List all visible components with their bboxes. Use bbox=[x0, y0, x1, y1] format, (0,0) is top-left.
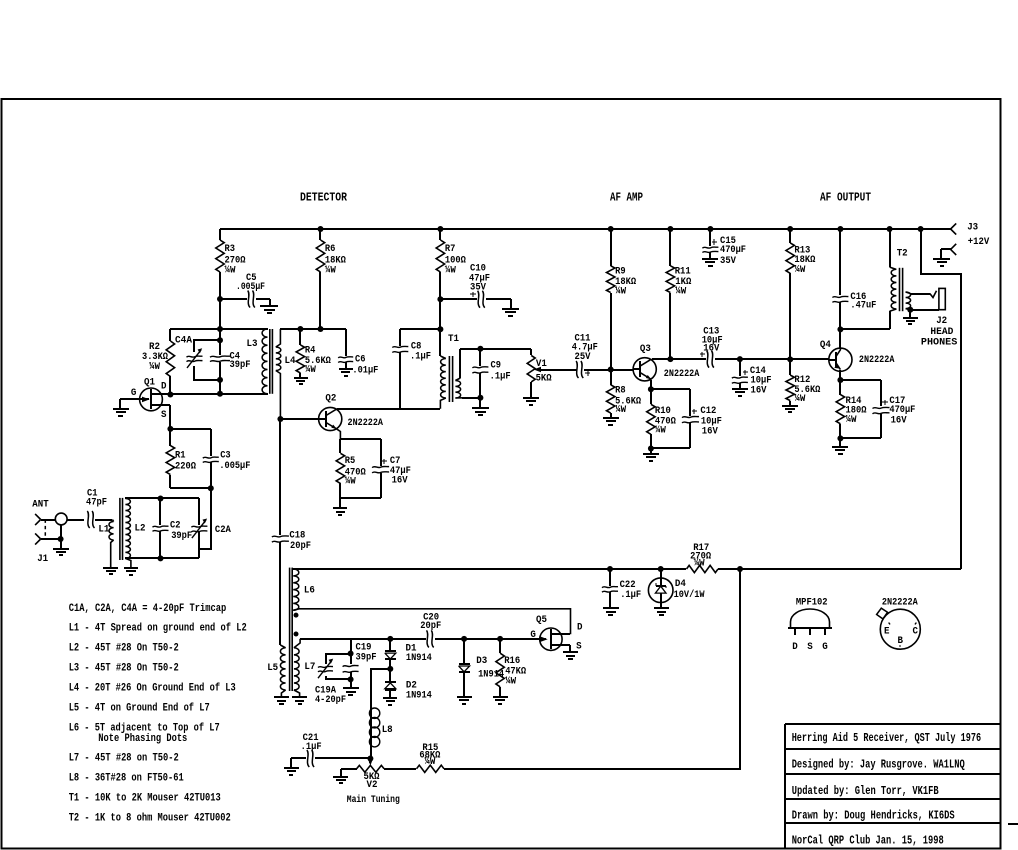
capacitor C2 bbox=[159, 498, 161, 525]
inductor L8 bbox=[370, 708, 372, 758]
trimmer C19A bbox=[318, 666, 333, 667]
core L5/L6/L7 bbox=[289, 568, 291, 691]
svg-text:L1: L1 bbox=[98, 524, 109, 535]
node T2 sec gnd bbox=[907, 307, 913, 313]
node R14 bottom bbox=[837, 435, 843, 441]
ground Q1 gate bbox=[113, 408, 129, 410]
svg-text:2N2222A: 2N2222A bbox=[882, 597, 918, 608]
svg-text:16V: 16V bbox=[751, 385, 767, 396]
svg-text:Q5: Q5 bbox=[536, 615, 547, 626]
svg-text:Q4: Q4 bbox=[820, 340, 831, 351]
svg-text:470µF: 470µF bbox=[720, 245, 746, 256]
svg-text:35V: 35V bbox=[470, 283, 486, 294]
core T2 bbox=[899, 268, 901, 311]
capacitor C1 bbox=[87, 511, 89, 528]
svg-text:Main Tuning: Main Tuning bbox=[347, 794, 400, 806]
node C4A-top bbox=[217, 337, 223, 343]
svg-text:D4: D4 bbox=[675, 579, 686, 590]
svg-text:L5 - 4T on Ground End of L7: L5 - 4T on Ground End of L7 bbox=[69, 703, 210, 715]
node D4 bbox=[658, 566, 664, 572]
ground L5 bbox=[274, 696, 289, 698]
svg-text:220Ω: 220Ω bbox=[175, 462, 196, 473]
svg-text:35V: 35V bbox=[720, 256, 736, 267]
ground L2 bbox=[124, 567, 138, 569]
svg-text:¼W: ¼W bbox=[345, 476, 356, 488]
resistor R14 / C17 box bbox=[840, 379, 881, 381]
Q1 gate wire bbox=[120, 398, 149, 400]
svg-text:10V/1W: 10V/1W bbox=[674, 589, 705, 601]
node C9 bottom bbox=[477, 395, 483, 401]
svg-text:.1µF: .1µF bbox=[301, 742, 322, 753]
ground C9 bbox=[472, 407, 489, 409]
capacitor C16 bbox=[839, 229, 841, 295]
ground C21 bbox=[284, 767, 299, 769]
wire oscillator gate bbox=[300, 638, 426, 640]
svg-text:D3: D3 bbox=[476, 656, 487, 667]
transistor Q3 bbox=[633, 358, 656, 381]
svg-text:T2 - 1K to 8 ohm Mouser 42TU00: T2 - 1K to 8 ohm Mouser 42TU002 bbox=[69, 813, 231, 825]
wire regulated rail bbox=[293, 568, 686, 570]
svg-text:2N2222A: 2N2222A bbox=[859, 355, 895, 366]
svg-text:C9: C9 bbox=[491, 361, 502, 372]
svg-text:16V: 16V bbox=[392, 476, 408, 487]
svg-text:T1: T1 bbox=[448, 334, 459, 345]
wire L2 bottom gnd bbox=[125, 558, 130, 568]
svg-text:C1A, C2A, C4A = 4-20pF Trimcap: C1A, C2A, C4A = 4-20pF Trimcap bbox=[69, 603, 227, 615]
svg-text:S: S bbox=[807, 642, 813, 653]
svg-text:.47uF: .47uF bbox=[850, 300, 876, 311]
svg-text:¼W: ¼W bbox=[615, 286, 626, 298]
ground C22 bbox=[603, 607, 619, 609]
wire R15 feed bbox=[444, 569, 740, 769]
wire C8 top bbox=[400, 328, 440, 330]
svg-text:C4A: C4A bbox=[175, 336, 192, 347]
ground R16 bbox=[493, 696, 508, 698]
ground L1 bbox=[103, 567, 118, 569]
ground C6 bbox=[339, 368, 353, 370]
resistor R5 bbox=[339, 439, 341, 453]
svg-text:47pF: 47pF bbox=[86, 498, 107, 509]
inductor L6 bbox=[293, 569, 299, 610]
node rail-R7 bbox=[437, 226, 443, 232]
svg-text:G: G bbox=[530, 630, 536, 641]
node R8 top bbox=[608, 367, 614, 373]
svg-text:¼W: ¼W bbox=[149, 361, 160, 373]
node C4A-bot bbox=[217, 377, 223, 383]
inductor L2 bbox=[125, 499, 130, 559]
node R1 top bbox=[167, 426, 173, 432]
transformer T2 secondary bbox=[905, 291, 907, 293]
resistor R10 / C12 box bbox=[651, 388, 690, 390]
potentiometer V2 bbox=[369, 758, 371, 763]
ground D3 bbox=[457, 696, 472, 698]
svg-text:L3 - 45T #28 On T50-2: L3 - 45T #28 On T50-2 bbox=[69, 663, 179, 675]
node rail-C15 bbox=[707, 226, 713, 232]
node R7-C10 bbox=[437, 296, 443, 302]
svg-text:R4: R4 bbox=[305, 346, 316, 357]
svg-text:.1µF: .1µF bbox=[620, 590, 641, 601]
svg-text:D: D bbox=[577, 623, 583, 634]
svg-text:L1 - 4T Spread on ground end o: L1 - 4T Spread on ground end of L2 bbox=[69, 623, 247, 635]
svg-text:L8 - 36T#28 on FT50-61: L8 - 36T#28 on FT50-61 bbox=[69, 773, 184, 785]
resistor R17 bbox=[687, 565, 719, 572]
svg-text:C18: C18 bbox=[289, 531, 305, 542]
svg-text:.01µF: .01µF bbox=[352, 365, 378, 376]
resistor R16 bbox=[499, 639, 501, 653]
potentiometer V1 bbox=[530, 349, 532, 355]
node R10 bottom bbox=[648, 446, 654, 452]
svg-text:20pF: 20pF bbox=[420, 621, 441, 632]
ground C14 bbox=[732, 388, 748, 390]
svg-text:39pF: 39pF bbox=[230, 360, 251, 371]
inductor L7 bbox=[294, 639, 300, 648]
svg-text:5KΩ: 5KΩ bbox=[536, 373, 552, 384]
capacitor C7 bbox=[372, 466, 389, 467]
capacitor C22 bbox=[609, 569, 611, 586]
capacitor C3 bbox=[210, 429, 212, 456]
connector J1 top bbox=[35, 514, 41, 520]
wire Q2 collector to T1 bbox=[337, 408, 440, 410]
V1 wiper bbox=[538, 369, 577, 371]
svg-text:¼W: ¼W bbox=[424, 756, 435, 768]
svg-text:R6: R6 bbox=[325, 244, 336, 255]
trimmer C2A branch bbox=[198, 498, 200, 525]
capacitor C21 bbox=[291, 757, 306, 759]
wire T2 sec bottom bbox=[906, 309, 911, 310]
svg-text:Note Phasing Dots: Note Phasing Dots bbox=[98, 733, 187, 745]
svg-text:V2: V2 bbox=[367, 780, 378, 791]
ground R5/C7 bbox=[333, 507, 347, 509]
wire T1 sec top bbox=[460, 348, 531, 350]
resistor R14 bbox=[839, 380, 841, 395]
resistor R6 bbox=[319, 229, 321, 240]
trimmer C2A bbox=[191, 526, 207, 527]
svg-text:T2: T2 bbox=[897, 249, 908, 260]
svg-text:1N914: 1N914 bbox=[406, 653, 432, 664]
wire L3 top bbox=[170, 328, 268, 330]
diode D3 bbox=[463, 639, 465, 664]
svg-text:L7: L7 bbox=[304, 662, 315, 673]
node rail-R6 bbox=[318, 226, 324, 232]
node C14 top bbox=[737, 356, 743, 362]
ground J1 bbox=[53, 548, 69, 550]
jack J2 body bbox=[939, 288, 945, 309]
svg-text:¼W: ¼W bbox=[325, 265, 336, 277]
svg-text:2N2222A: 2N2222A bbox=[664, 369, 700, 380]
ground V1 bbox=[523, 397, 539, 399]
svg-text:D: D bbox=[792, 642, 798, 653]
svg-text:Designed by: Jay Rusgrove. WA1: Designed by: Jay Rusgrove. WA1LNQ bbox=[792, 757, 965, 771]
tick mark outside border bbox=[1008, 823, 1018, 825]
node R3-C5 bbox=[217, 296, 223, 302]
svg-text:¼W: ¼W bbox=[794, 393, 805, 405]
node rail-R13 bbox=[787, 226, 793, 232]
wire Q2 emitter bbox=[337, 429, 340, 439]
resistor R11 bbox=[669, 229, 671, 266]
svg-text:Drawn by: Doug Hendricks, KI6D: Drawn by: Doug Hendricks, KI6DS bbox=[792, 809, 955, 823]
capacitor C18 bbox=[272, 536, 289, 537]
node Q2 base-L4 bbox=[277, 416, 283, 422]
svg-text:S: S bbox=[161, 410, 167, 421]
svg-text:Updated by: Glen Torr, VK1FB: Updated by: Glen Torr, VK1FB bbox=[792, 784, 939, 798]
node Q2base-C18 wire bbox=[279, 419, 281, 535]
svg-text:PHONES: PHONES bbox=[921, 337, 957, 348]
svg-text:L2 - 45T #28 On T50-2: L2 - 45T #28 On T50-2 bbox=[69, 643, 179, 655]
transistor Q1 JFET bbox=[140, 388, 163, 411]
ground D4 bbox=[654, 607, 669, 609]
wire +12V top rail bbox=[220, 228, 951, 230]
inductor L1 bbox=[112, 520, 113, 522]
ground L7 bbox=[292, 696, 307, 698]
wire ANT to C1 bbox=[41, 519, 55, 521]
wire Q5 source bbox=[569, 645, 571, 652]
svg-text:S: S bbox=[576, 641, 582, 652]
capacitor C6 bbox=[345, 329, 347, 356]
node R4 top bbox=[297, 326, 303, 332]
svg-text:L4: L4 bbox=[285, 356, 296, 367]
node rail-R11 bbox=[667, 226, 673, 232]
node Q4 collector bbox=[837, 326, 843, 332]
resistor R4 bbox=[299, 329, 301, 345]
node C2 bottom bbox=[158, 555, 164, 561]
node R10 top bbox=[648, 386, 654, 392]
svg-text:L8: L8 bbox=[382, 725, 393, 736]
svg-text:L4 - 20T #26 On Ground End of: L4 - 20T #26 On Ground End of L3 bbox=[69, 683, 236, 695]
phasing dot L6 bbox=[294, 613, 299, 618]
svg-text:V1: V1 bbox=[536, 359, 547, 370]
resistor R5 / capacitor C7 box bbox=[340, 438, 381, 440]
core T1 bbox=[448, 356, 450, 402]
transformer T1 secondary bbox=[459, 349, 461, 378]
ground R10 bbox=[643, 453, 659, 455]
ground R4 bbox=[294, 377, 308, 379]
svg-text:C12: C12 bbox=[700, 406, 716, 417]
svg-text:39pF: 39pF bbox=[171, 531, 192, 542]
ground C15 bbox=[702, 258, 718, 260]
svg-text:¼W: ¼W bbox=[794, 264, 805, 276]
wire +12V right feed bbox=[921, 229, 961, 569]
svg-text:NorCal QRP Club Jan. 15, 1998: NorCal QRP Club Jan. 15, 1998 bbox=[792, 834, 944, 848]
svg-text:Q3: Q3 bbox=[640, 344, 651, 355]
node D1 top bbox=[387, 636, 393, 642]
transistor Q2 bbox=[319, 407, 342, 430]
connector circle bbox=[55, 513, 67, 525]
capacitor C8 bbox=[399, 329, 401, 346]
svg-text:.005µF: .005µF bbox=[236, 282, 265, 293]
capacitor C15 bbox=[709, 229, 711, 246]
ground C5 bbox=[260, 305, 278, 307]
wire L6 bottom to Q5 drain bbox=[293, 609, 570, 635]
svg-text:¼W: ¼W bbox=[655, 425, 666, 437]
svg-text:16V: 16V bbox=[702, 426, 718, 437]
svg-text:C2: C2 bbox=[170, 520, 181, 531]
wire Q4 base bbox=[790, 358, 829, 360]
node C19A top bbox=[348, 651, 354, 657]
svg-text:C2A: C2A bbox=[215, 525, 231, 536]
title block frame bbox=[784, 724, 786, 848]
svg-text:L6: L6 bbox=[304, 586, 315, 597]
svg-text:¼W: ¼W bbox=[675, 286, 686, 298]
inductor L4 bbox=[276, 329, 281, 347]
svg-text:ANT: ANT bbox=[32, 500, 48, 511]
svg-text:AF AMP: AF AMP bbox=[610, 191, 643, 205]
wire L4 top to C6 bbox=[280, 328, 346, 330]
diode D1 bbox=[389, 639, 391, 651]
svg-text:+12V: +12V bbox=[968, 237, 990, 248]
node R14 top bbox=[837, 377, 843, 383]
wire J1 gnd bbox=[41, 538, 61, 540]
connector J1 bottom bbox=[35, 533, 41, 539]
svg-text:.005µF: .005µF bbox=[219, 461, 250, 472]
svg-text:R3: R3 bbox=[225, 244, 236, 255]
wire Q2 base bbox=[280, 418, 319, 420]
wire Q4 emitter bbox=[839, 370, 841, 380]
wire Q4 collector bbox=[839, 329, 841, 348]
svg-text:AF OUTPUT: AF OUTPUT bbox=[820, 191, 871, 205]
svg-text:39pF: 39pF bbox=[356, 652, 377, 663]
capacitor C13 bbox=[707, 351, 709, 368]
ground C19 bbox=[343, 687, 359, 689]
svg-text:R8: R8 bbox=[615, 386, 626, 397]
svg-text:¼W: ¼W bbox=[694, 558, 705, 570]
svg-text:L3: L3 bbox=[247, 339, 258, 350]
svg-text:E: E bbox=[884, 627, 890, 638]
wire C3 to tank bbox=[199, 488, 211, 549]
svg-text:G: G bbox=[822, 642, 828, 653]
svg-text:4-20pF: 4-20pF bbox=[315, 695, 346, 706]
resistor R1 / capacitor C3 box bbox=[170, 428, 211, 430]
svg-text:J1: J1 bbox=[37, 554, 48, 565]
node C4-top-wire bbox=[217, 326, 223, 332]
svg-text:R1: R1 bbox=[175, 451, 186, 462]
svg-text:DETECTOR: DETECTOR bbox=[300, 191, 348, 205]
ground T2 bbox=[903, 317, 918, 319]
node D1-D2 bbox=[387, 666, 393, 672]
zener diode D4 bbox=[660, 569, 662, 586]
wire Q4c to T2 bbox=[840, 328, 890, 330]
node T1 top bbox=[437, 326, 443, 332]
svg-text:20pF: 20pF bbox=[290, 541, 311, 552]
svg-text:L7 - 45T #28 on T50-2: L7 - 45T #28 on T50-2 bbox=[69, 753, 179, 765]
svg-text:¼W: ¼W bbox=[305, 364, 316, 376]
svg-text:R7: R7 bbox=[445, 244, 456, 255]
trimmer C4A box bbox=[194, 340, 220, 352]
node C22 bbox=[607, 566, 613, 572]
node J1 gnd bbox=[58, 536, 64, 542]
svg-text:C6: C6 bbox=[355, 355, 366, 366]
inductor L3 bbox=[262, 329, 267, 394]
capacitor C4 line bbox=[219, 329, 221, 340]
capacitor C20 bbox=[427, 630, 429, 647]
node R16 top bbox=[497, 636, 503, 642]
trimmer C19A box bbox=[326, 654, 351, 664]
svg-text:16V: 16V bbox=[703, 344, 719, 355]
node rail-R9 bbox=[608, 226, 614, 232]
J1 dashed bbox=[44, 520, 46, 540]
svg-text:J2: J2 bbox=[936, 316, 947, 327]
capacitor C5 bbox=[220, 298, 247, 300]
capacitor C19 bbox=[350, 639, 352, 654]
svg-text:L2: L2 bbox=[135, 524, 146, 535]
2N2222A pinout symbol bbox=[880, 609, 920, 649]
svg-text:D: D bbox=[161, 381, 167, 392]
ground C10 bbox=[502, 308, 519, 310]
capacitor C14 bbox=[739, 359, 741, 376]
svg-text:R5: R5 bbox=[345, 456, 356, 467]
node rail-C16 bbox=[837, 226, 843, 232]
resistor R12 bbox=[789, 359, 791, 375]
node Q1-D bbox=[167, 392, 173, 398]
node R11 bottom bbox=[667, 356, 673, 362]
transistor Q5 JFET bbox=[540, 628, 562, 650]
svg-text:R10: R10 bbox=[655, 406, 671, 417]
svg-text:¼W: ¼W bbox=[445, 265, 456, 277]
connector J3 bbox=[951, 223, 957, 229]
resistor R7 bbox=[439, 229, 441, 240]
core L2 bbox=[119, 498, 121, 560]
phasing dot L7 bbox=[294, 632, 299, 637]
wire V2 left bbox=[341, 768, 357, 770]
svg-text:16V: 16V bbox=[891, 415, 907, 426]
wire tank bottom bbox=[125, 557, 199, 559]
svg-text:MPF102: MPF102 bbox=[796, 597, 828, 608]
transformer T2 primary bbox=[889, 229, 891, 267]
node C2 top bbox=[158, 496, 164, 502]
ground R12 bbox=[782, 405, 798, 407]
svg-text:¼W: ¼W bbox=[505, 676, 516, 688]
node R15 feed bbox=[737, 566, 743, 572]
node rail-T2 bbox=[887, 226, 893, 232]
core L3/L4 bbox=[269, 329, 271, 394]
resistor R8 bbox=[610, 370, 612, 385]
ground J3 bbox=[933, 258, 950, 260]
svg-text:1N914: 1N914 bbox=[406, 690, 432, 701]
trimmer C4A bbox=[187, 356, 203, 357]
capacitor C9 bbox=[479, 349, 481, 366]
node C9 top bbox=[477, 346, 483, 352]
capacitor C12 bbox=[682, 416, 699, 417]
resistor R3 bbox=[219, 229, 221, 240]
wire V2 to R15 bbox=[384, 768, 416, 770]
resistor R15 bbox=[417, 765, 445, 772]
wire L3 bottom bbox=[170, 393, 268, 395]
ground V2 bbox=[333, 776, 348, 778]
capacitor C4 bbox=[210, 356, 230, 357]
node rail-J3 feed bbox=[918, 226, 924, 232]
capacitor C17 bbox=[873, 407, 890, 408]
diode D2 bbox=[389, 669, 391, 682]
svg-text:25V: 25V bbox=[575, 352, 591, 363]
resistor R1 bbox=[169, 429, 171, 446]
ground R14 bbox=[832, 446, 848, 448]
svg-text:¼W: ¼W bbox=[225, 265, 236, 277]
node R6 bottom bbox=[318, 326, 324, 332]
svg-text:R11: R11 bbox=[675, 267, 691, 278]
wire D1D2 to L8 bbox=[371, 669, 390, 708]
resistor R9 bbox=[610, 229, 612, 266]
node C19A bottom bbox=[348, 676, 354, 682]
node C4-L3wire bbox=[217, 391, 223, 397]
svg-text:Q1: Q1 bbox=[144, 378, 155, 389]
transformer T1 primary bbox=[439, 329, 441, 356]
svg-text:.1µF: .1µF bbox=[410, 352, 431, 363]
wire tank top bbox=[125, 497, 199, 499]
node D3 top bbox=[461, 636, 467, 642]
svg-text:¼W: ¼W bbox=[615, 404, 626, 416]
svg-text:L5: L5 bbox=[267, 663, 278, 674]
svg-text:.1µF: .1µF bbox=[490, 371, 511, 382]
wire Q3 collector bbox=[652, 358, 706, 360]
